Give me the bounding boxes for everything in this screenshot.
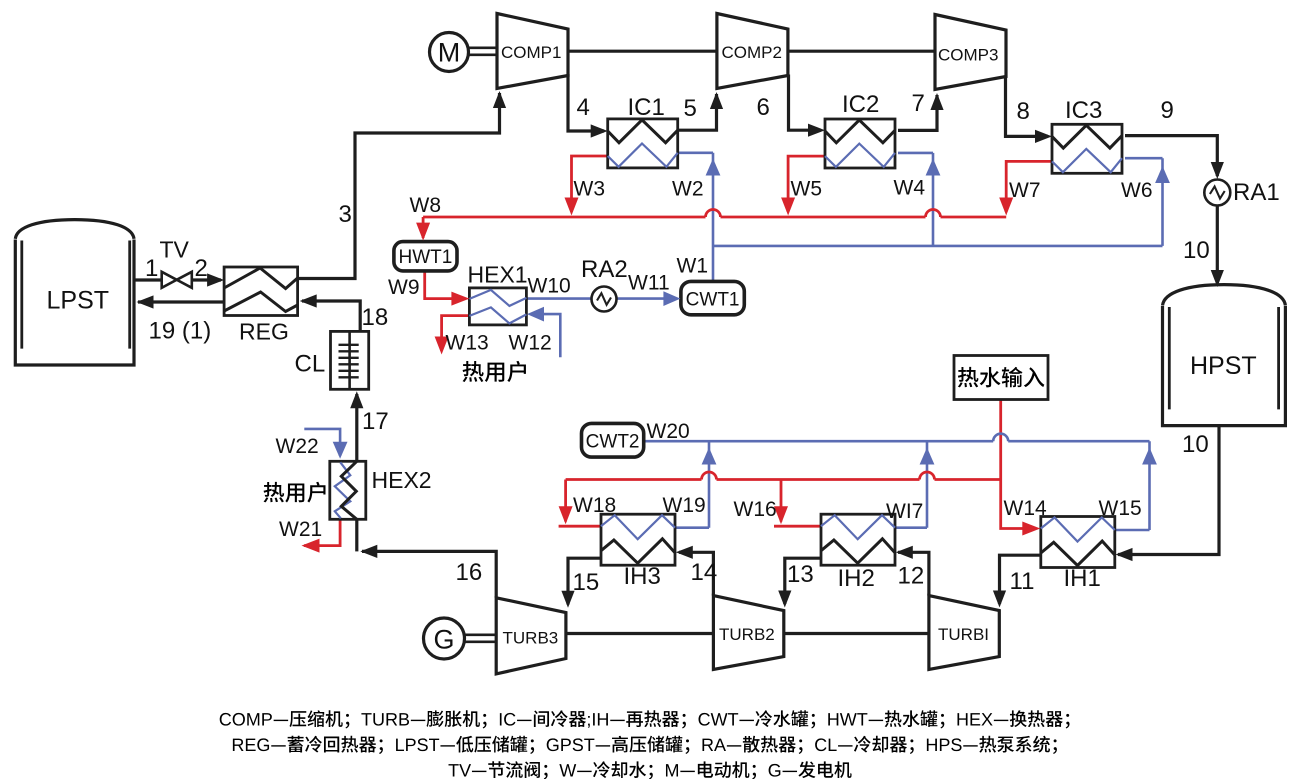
wire blue W22 into HEX2 [304, 429, 340, 456]
tank LPST [15, 220, 134, 365]
svg-text:3: 3 [339, 201, 352, 228]
wire line 5 IC1 to COMP2 [678, 94, 717, 130]
svg-text:2: 2 [195, 255, 208, 282]
wire line 16 TURB3 to HEX2 [362, 551, 496, 597]
tank HPST [1163, 285, 1286, 426]
svg-text:TV: TV [160, 237, 190, 263]
arrow red W16 into IH2 leg [774, 506, 788, 524]
svg-text:W5: W5 [791, 178, 823, 201]
wire line 18 CL to REG [302, 301, 360, 331]
wire line 17 HEX2 to CL [355, 394, 358, 461]
arrow line 16 toward HEX2 [360, 545, 377, 558]
wire blue W15 IH1 branch [1115, 441, 1150, 530]
svg-text:W20: W20 [647, 420, 690, 443]
svg-text:COMP2: COMP2 [722, 43, 782, 62]
radiator RA2 [592, 287, 617, 312]
wire blue W2 IC1 to W1 CWT1 [678, 153, 713, 281]
arrow line 14 into IH3 [676, 546, 693, 559]
wire red W8 drop to HWT1 [422, 217, 425, 238]
svg-text:IC1: IC1 [628, 94, 665, 121]
arrow line 10 into IH1 [1116, 548, 1133, 561]
svg-text:HEX1: HEX1 [468, 262, 528, 288]
wire red W13 HEX1 out [442, 316, 470, 351]
svg-text:18: 18 [362, 304, 389, 331]
wire HEX2 lower stub [355, 519, 358, 551]
arrow blue W15 up [1142, 448, 1157, 465]
arrow red W13 to heat user [435, 337, 449, 355]
svg-text:G: G [433, 625, 454, 655]
arrow line 9 into RA1 [1211, 162, 1224, 179]
arrow line 19 into LPST [137, 295, 154, 308]
wire line 13 IH2 to TURB2 [785, 558, 821, 604]
svg-text:W3: W3 [574, 178, 606, 201]
svg-text:5: 5 [684, 95, 697, 122]
intercooler IC1 [608, 119, 678, 168]
svg-text:IC2: IC2 [842, 91, 879, 118]
svg-text:W9: W9 [388, 276, 420, 299]
tank CWT2 [582, 423, 644, 457]
svg-text:W19: W19 [663, 494, 706, 517]
wire blue W12 into HEX1 [531, 314, 560, 357]
svg-text:IH2: IH2 [838, 565, 875, 592]
svg-text:HWT1: HWT1 [398, 247, 452, 268]
compressor COMP3 [935, 15, 1006, 90]
cooler CL [331, 331, 369, 389]
wire line 10 HPST to IH1 [1118, 426, 1219, 555]
wire red W21 HEX2 out [304, 519, 340, 545]
svg-text:TURB3: TURB3 [503, 629, 559, 648]
svg-text:RA1: RA1 [1233, 179, 1280, 206]
svg-text:W6: W6 [1121, 179, 1153, 202]
arrow blue W6 up [1155, 166, 1170, 183]
wire line 2 TV to REG [192, 278, 221, 281]
svg-text:17: 17 [362, 408, 389, 435]
arrow blue WI7 up [920, 448, 935, 465]
svg-text:13: 13 [787, 561, 814, 588]
svg-text:TURBI: TURBI [938, 625, 989, 644]
wire blue W10 HEX1 to RA2 to CWT1 [526, 297, 676, 300]
wire red W9 HWT1 to HEX1 [425, 271, 465, 299]
wire line 15 IH3 to TURB3 [568, 558, 601, 604]
reheater IH1 [1041, 517, 1115, 568]
arrow blue W19 up [702, 448, 717, 465]
svg-text:W21: W21 [279, 518, 322, 541]
svg-text:8: 8 [1017, 98, 1030, 125]
generator G [424, 618, 465, 659]
svg-text:IH3: IH3 [624, 563, 661, 590]
svg-text:10: 10 [1182, 431, 1209, 458]
svg-text:LPST: LPST [47, 287, 110, 315]
svg-text:COMP1: COMP1 [501, 43, 561, 62]
reheater IH3 [601, 514, 675, 565]
arrow line 18 into REG [300, 294, 317, 307]
svg-text:IC3: IC3 [1065, 97, 1102, 124]
svg-text:RA2: RA2 [581, 256, 628, 283]
motor M [430, 33, 469, 72]
wire line 3 REG to COMP1 [298, 93, 500, 279]
junction hop red over W19 [702, 472, 717, 479]
shaft COMP1 to COMP2 [568, 50, 717, 53]
svg-text:W1: W1 [677, 255, 709, 278]
arrow blue W4 up [926, 159, 941, 176]
legend line 1 [220, 713, 231, 726]
wire line 4 COMP1 to IC1 [568, 74, 604, 131]
arrow blue W12 into HEX1 [527, 307, 544, 322]
wire red W7 IC3 branch [1006, 161, 1052, 212]
wire blue W20 bottom header [644, 440, 1150, 443]
wire blue top header [713, 245, 1163, 248]
heat user label at HEX1 [463, 361, 484, 382]
arrow red W3 into header [565, 198, 579, 216]
arrow red W5 into header [781, 198, 795, 216]
arrow blue W2 up [706, 159, 721, 176]
junction hop red over W2 [706, 210, 721, 218]
wire line 19 REG to LPST [138, 300, 224, 303]
regenerator REG [224, 267, 298, 316]
junction hop red over WI7 [920, 472, 935, 479]
svg-text:14: 14 [691, 559, 718, 586]
compressor COMP2 [717, 14, 788, 89]
wire line 14 TURB2 to IH3 [679, 552, 713, 595]
svg-text:9: 9 [1161, 97, 1174, 124]
arrow red W7 into header [999, 198, 1013, 216]
wire line 10 RA1 to HPST [1216, 206, 1219, 284]
arrow line 13 into TURB2 [778, 591, 791, 608]
wire line 8 COMP3 to IC3 [1006, 76, 1049, 137]
wire line 1 LPST to TV [134, 278, 162, 281]
wire line 11 IH1 to TURB1 [1000, 555, 1041, 604]
svg-text:W7: W7 [1009, 179, 1041, 202]
wire blue W6 IC3 branch [1125, 158, 1163, 246]
svg-text:HEX2: HEX2 [372, 467, 432, 493]
valve TV [162, 272, 192, 288]
svg-text:W10: W10 [528, 275, 571, 298]
svg-text:7: 7 [912, 90, 925, 117]
arrow red W9 into HEX1 [451, 292, 469, 306]
wire line 6 COMP2 to IC2 [789, 75, 822, 131]
arrow line 7 into COMP3 [930, 93, 943, 110]
hot water input label [958, 367, 979, 388]
wire line 9 IC3 to RA1 [1125, 136, 1217, 176]
shaft G to TURB3 [464, 635, 497, 642]
heat user label at HEX2 [264, 482, 285, 503]
tank HWT1 [394, 242, 457, 271]
wire blue W4 IC2 branch [898, 153, 933, 246]
arrow line 2 into REG [207, 273, 224, 286]
svg-text:W18: W18 [573, 494, 616, 517]
arrow line 11 into TURB1 [993, 591, 1006, 608]
svg-text:TURB2: TURB2 [719, 625, 775, 644]
svg-text:W11: W11 [628, 272, 670, 295]
arrow line 8 into IC3 [1035, 130, 1052, 143]
arrow red W18 into IH3 leg [559, 506, 573, 524]
legend line 3 [449, 764, 459, 776]
arrow red W8 into HWT1 [416, 223, 430, 241]
svg-text:W4: W4 [894, 177, 926, 200]
svg-text:CWT1: CWT1 [686, 290, 740, 311]
svg-text:COMP3: COMP3 [938, 46, 998, 65]
svg-text:CL: CL [295, 351, 326, 378]
svg-text:19 (1): 19 (1) [149, 318, 212, 345]
svg-text:W22: W22 [276, 435, 319, 458]
arrow red W14 into IH1 [1022, 522, 1040, 536]
arrow line 4 into IC1 [591, 124, 608, 137]
shaft TURB2 to TURB1 [785, 632, 929, 635]
svg-text:W13: W13 [446, 332, 489, 355]
arrow line 5 into COMP2 [710, 92, 723, 109]
heat exchanger HEX1 [469, 288, 526, 325]
wire red W14 hot water to IH1 [1001, 400, 1036, 529]
intercooler IC3 [1052, 124, 1122, 173]
svg-text:IH1: IH1 [1064, 565, 1101, 592]
svg-text:M: M [438, 38, 461, 68]
svg-text:W8: W8 [410, 194, 442, 217]
wire red bottom header [566, 478, 1001, 481]
svg-text:W2: W2 [672, 178, 704, 201]
arrow line 17 into CL [350, 391, 363, 408]
arrow blue W11 into CWT1 [663, 291, 680, 306]
intercooler IC2 [825, 119, 895, 168]
svg-text:W15: W15 [1099, 497, 1142, 520]
turbine TURB2 [713, 596, 783, 670]
arrow line 12 into IH2 [896, 546, 913, 559]
arrow line 6 into IC2 [808, 124, 825, 137]
svg-text:W12: W12 [509, 332, 552, 355]
wire blue W19 IH3 branch [675, 441, 709, 528]
arrow line 15 into TURB3 [561, 591, 574, 608]
shaft TURB3 to TURB2 [566, 632, 714, 635]
wire red W5 IC2 branch [788, 156, 825, 212]
svg-text:6: 6 [757, 94, 770, 121]
shaft M to COMP1 [467, 48, 497, 55]
wire red W16 drop to IH2 [774, 480, 821, 527]
svg-text:11: 11 [1010, 568, 1035, 595]
wire line 7 IC2 to COMP3 [898, 95, 937, 130]
tank CWT1 [681, 281, 744, 314]
junction hop blue over W14 [993, 434, 1008, 441]
turbine TURB1 [929, 596, 999, 670]
svg-text:CWT2: CWT2 [586, 432, 640, 453]
wire red W18 drop to IH3 [559, 480, 601, 527]
svg-text:15: 15 [573, 569, 600, 596]
wire line 12 TURB1 to IH2 [898, 552, 929, 595]
heat exchanger HEX2 [330, 461, 366, 519]
reheater IH2 [821, 514, 895, 565]
svg-text:1: 1 [145, 255, 158, 282]
svg-text:16: 16 [456, 559, 483, 586]
wire red top header [423, 216, 1006, 219]
svg-text:W14: W14 [1004, 497, 1048, 520]
radiator RA1 [1204, 180, 1230, 206]
shaft COMP2 to COMP3 [788, 50, 935, 53]
turbine TURB3 [496, 598, 566, 674]
legend line 2 [233, 739, 244, 751]
wire blue WI7 IH2 branch [895, 441, 927, 528]
hot water input box [954, 356, 1048, 400]
svg-text:REG: REG [239, 319, 289, 345]
svg-text:W16: W16 [734, 498, 777, 521]
junction hop red over W4 [926, 210, 941, 218]
svg-text:12: 12 [898, 563, 925, 590]
svg-text:WI7: WI7 [886, 500, 923, 523]
wire red W3 IC1 branch [572, 156, 608, 212]
arrow blue W22 into HEX2 [333, 442, 348, 459]
svg-text:HPST: HPST [1190, 352, 1257, 380]
arrow red W21 to heat user [302, 539, 320, 553]
compressor COMP1 [497, 14, 568, 89]
arrow line 3 into COMP1 [493, 91, 506, 108]
svg-text:10: 10 [1183, 237, 1210, 264]
arrow line 10 into HPST [1211, 270, 1224, 287]
svg-text:4: 4 [577, 94, 590, 121]
